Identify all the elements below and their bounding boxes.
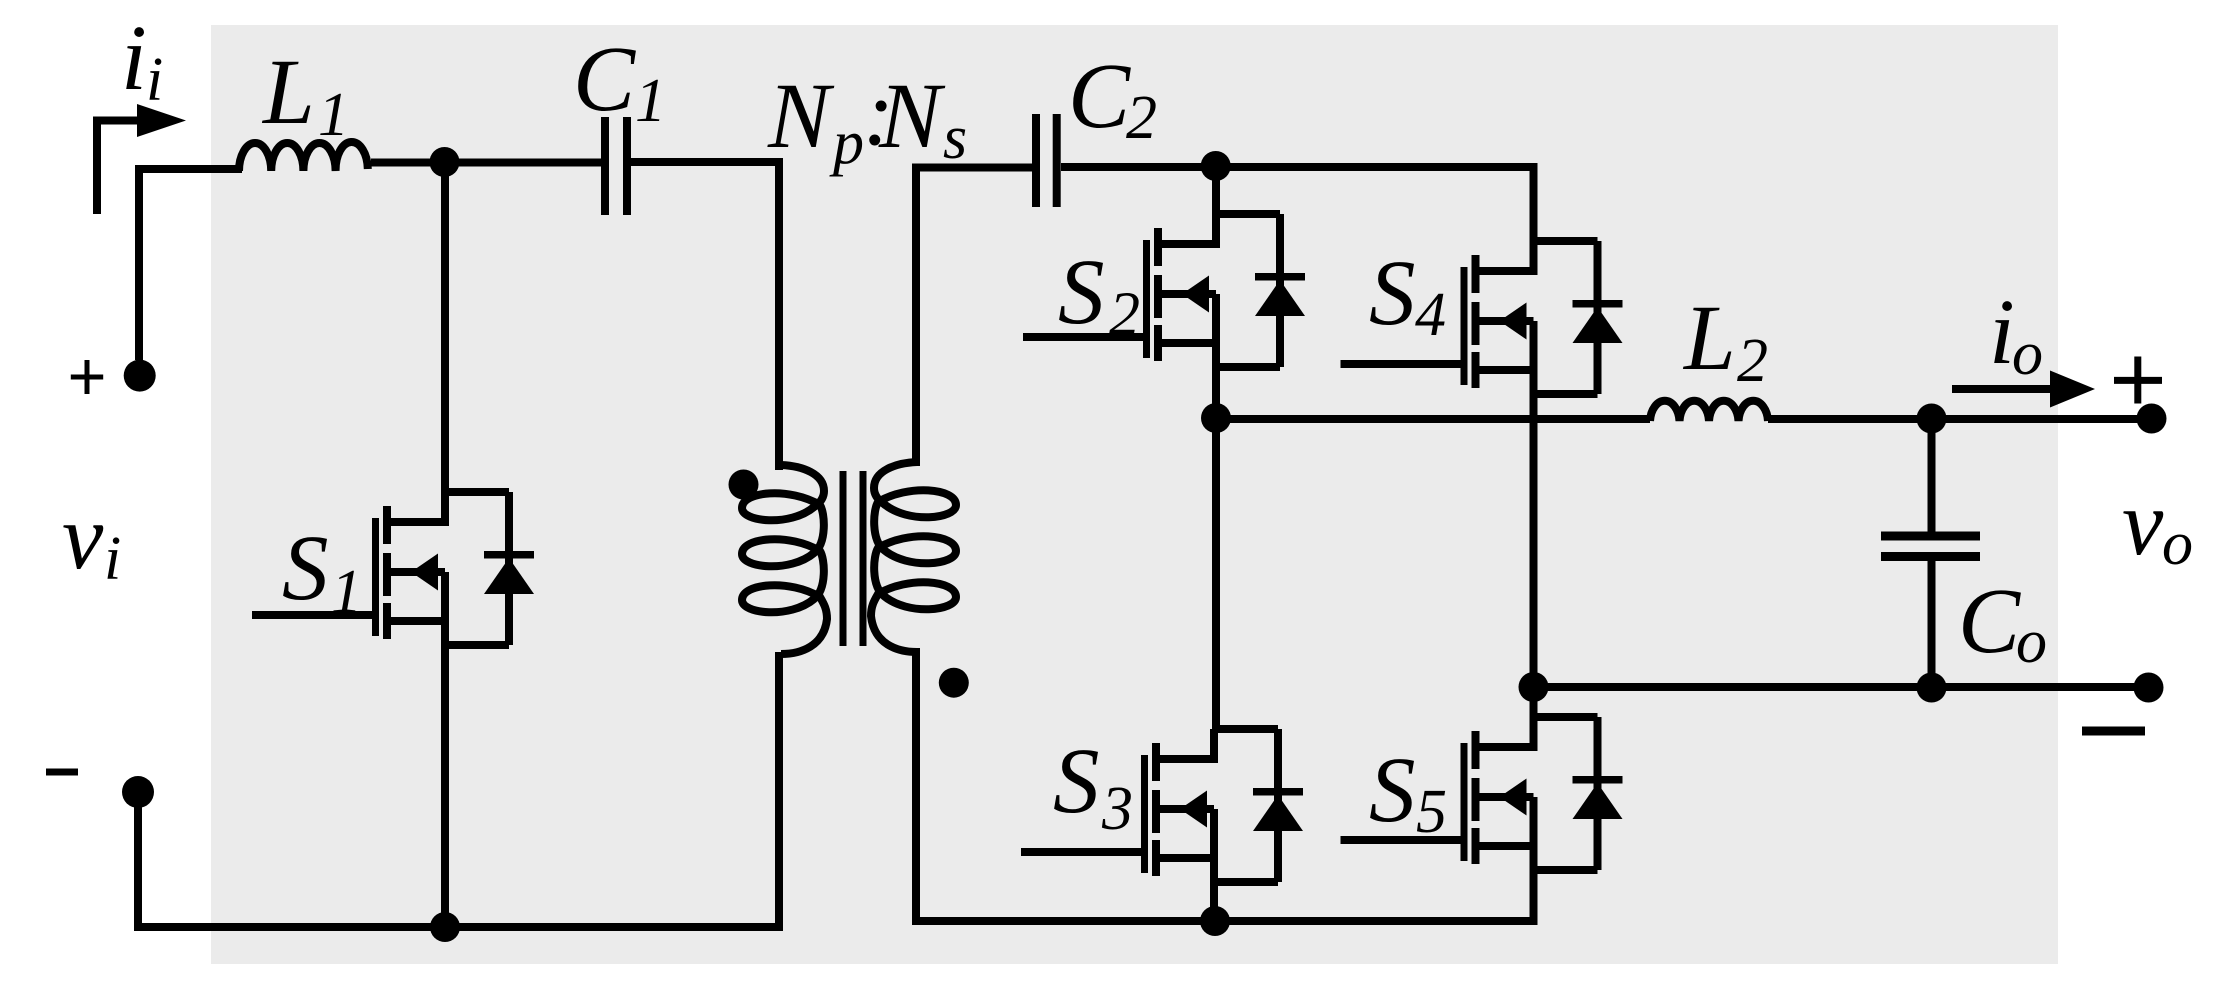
svg-text:N: N bbox=[767, 65, 835, 168]
svg-text:i: i bbox=[121, 7, 147, 110]
svg-text:S: S bbox=[1369, 739, 1416, 842]
svg-text:3: 3 bbox=[1101, 775, 1133, 843]
svg-text:i: i bbox=[1989, 281, 2015, 384]
svg-text:C: C bbox=[1068, 45, 1131, 148]
svg-text:i: i bbox=[104, 525, 121, 593]
svg-text:2: 2 bbox=[1126, 84, 1157, 152]
svg-text:o: o bbox=[2012, 320, 2043, 388]
svg-text:p: p bbox=[829, 109, 864, 177]
svg-text:C: C bbox=[573, 28, 636, 131]
svg-text:2: 2 bbox=[1109, 281, 1140, 349]
svg-text:i: i bbox=[146, 46, 163, 114]
svg-text:o: o bbox=[2162, 510, 2193, 578]
svg-text:2: 2 bbox=[1737, 327, 1768, 395]
svg-text:v: v bbox=[2122, 472, 2164, 575]
svg-text:L: L bbox=[1682, 287, 1736, 390]
svg-text:S: S bbox=[1053, 730, 1100, 833]
svg-text:5: 5 bbox=[1416, 778, 1447, 846]
svg-text:S: S bbox=[1058, 241, 1105, 344]
svg-text:1: 1 bbox=[635, 67, 666, 135]
svg-text:s: s bbox=[943, 104, 967, 172]
svg-text:L: L bbox=[261, 41, 315, 144]
svg-text:4: 4 bbox=[1415, 281, 1446, 349]
svg-text:o: o bbox=[2016, 608, 2047, 676]
svg-text:S: S bbox=[282, 517, 329, 620]
svg-text:1: 1 bbox=[318, 81, 349, 149]
svg-text:C: C bbox=[1958, 570, 2021, 673]
svg-text:N: N bbox=[878, 65, 946, 168]
svg-text:S: S bbox=[1369, 242, 1416, 345]
svg-text:v: v bbox=[62, 486, 104, 589]
svg-text:1: 1 bbox=[331, 558, 362, 626]
